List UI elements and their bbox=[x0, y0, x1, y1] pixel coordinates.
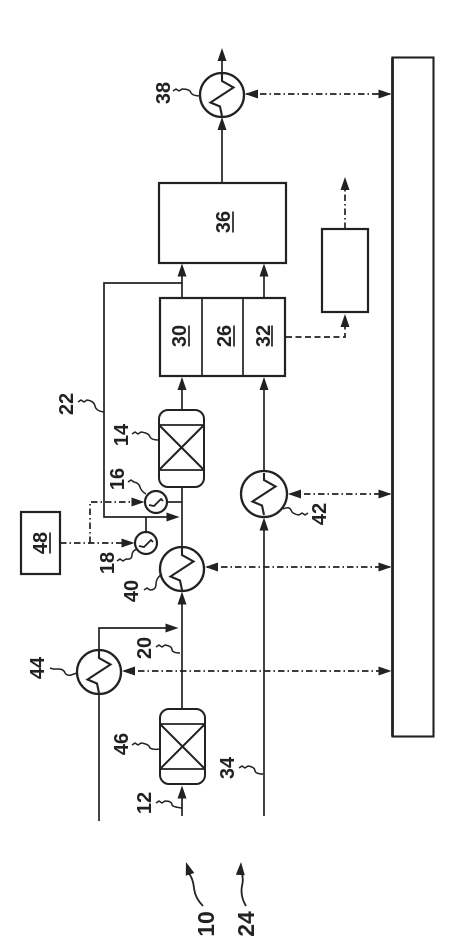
wire: block 32 to 36 bbox=[263, 266, 265, 298]
svg-text:26: 26 bbox=[214, 325, 236, 347]
leader label 34 bbox=[239, 766, 263, 774]
heat exchanger 42 bbox=[241, 471, 287, 517]
svg-text:46: 46 bbox=[111, 733, 133, 755]
divider 30/26 bbox=[201, 298, 203, 376]
svg-text:34: 34 bbox=[217, 756, 239, 779]
separation block 30/26/32 bbox=[160, 298, 285, 376]
wire: exchanger 44 top junction into line 20 bbox=[99, 628, 175, 650]
svg-text:48: 48 bbox=[30, 532, 52, 554]
wire: recycle line 22 bbox=[104, 283, 182, 517]
svg-text:42: 42 bbox=[309, 503, 331, 525]
wire: line 34 up into exchanger 42 bbox=[263, 520, 265, 816]
wire: dash-dot arrow above small box bbox=[344, 180, 346, 229]
svg-text:22: 22 bbox=[56, 393, 78, 415]
leader label 18 bbox=[117, 549, 137, 561]
wire: dash-dot 42 to bar bbox=[290, 493, 390, 495]
heat exchanger 44 bbox=[77, 650, 121, 694]
vessel 46 bbox=[160, 709, 205, 784]
svg-text:24: 24 bbox=[233, 911, 259, 937]
leader label 20 bbox=[156, 645, 180, 653]
wire: vessel 14 bottom to exchanger 40 bbox=[181, 487, 183, 547]
svg-text:18: 18 bbox=[97, 552, 119, 574]
heat exchanger 38 bbox=[200, 73, 244, 117]
svg-text:44: 44 bbox=[27, 656, 49, 679]
svg-text:14: 14 bbox=[111, 423, 133, 446]
leader label 40 bbox=[144, 574, 162, 590]
heat exchanger 40 bbox=[160, 547, 204, 591]
wire: dash-dot 38 to bar bbox=[246, 93, 390, 95]
small box (right, unlabeled) bbox=[322, 229, 368, 312]
divider 26/32 bbox=[242, 298, 244, 376]
svg-text:16: 16 bbox=[107, 468, 129, 490]
wire: outlet arrow above 38 bbox=[221, 52, 223, 73]
reference arrow 24 bbox=[241, 870, 246, 906]
leader label 44 bbox=[50, 668, 77, 675]
control device circle 16 bbox=[145, 491, 167, 513]
vessel 14 bbox=[159, 410, 204, 487]
wire: stub circle 18 to line 22 bbox=[145, 517, 147, 532]
wire: dash-dot 40 to bar bbox=[207, 566, 390, 568]
wire: vessel 14 top to block bbox=[181, 379, 183, 410]
wire: feed line into exchanger 44 bottom bbox=[98, 694, 100, 821]
box 36 bbox=[159, 183, 286, 263]
svg-text:10: 10 bbox=[193, 911, 219, 937]
svg-text:12: 12 bbox=[134, 792, 156, 814]
svg-text:36: 36 bbox=[213, 211, 235, 233]
wire: exchanger 42 to block 32 bbox=[263, 379, 265, 471]
svg-text:20: 20 bbox=[134, 637, 156, 659]
control device circle 18 bbox=[135, 532, 157, 554]
leader label 12 bbox=[156, 801, 182, 808]
wire: control branch 48 to 16 bbox=[90, 502, 141, 543]
wire: 36 top to 38 bottom bbox=[221, 120, 223, 183]
heat recovery bar (right tall rectangle) bbox=[393, 58, 434, 737]
leader label 22 bbox=[78, 400, 104, 412]
wire: dashed 32 to small box bbox=[286, 317, 345, 337]
leader label 38 bbox=[173, 89, 201, 96]
svg-text:38: 38 bbox=[153, 82, 175, 104]
leader label 16 bbox=[128, 480, 146, 494]
wire: feed 12 into vessel 46 bbox=[181, 788, 183, 816]
leader label 42 bbox=[283, 508, 308, 515]
wire: block 30 to 36 bbox=[181, 266, 183, 298]
svg-text:40: 40 bbox=[121, 580, 143, 602]
box 48 bbox=[21, 512, 60, 574]
wire: control line 48 to 18 bbox=[60, 542, 132, 544]
wire: arrow into exchanger 40 bottom bbox=[181, 594, 183, 709]
svg-text:30: 30 bbox=[169, 325, 191, 347]
wire: dash-dot 44 to bar bbox=[124, 670, 390, 672]
wire: stub circle 16 to main line bbox=[167, 501, 182, 503]
reference arrow 10 bbox=[188, 872, 203, 906]
leader label 46 bbox=[132, 743, 160, 749]
leader label 14 bbox=[132, 432, 158, 440]
